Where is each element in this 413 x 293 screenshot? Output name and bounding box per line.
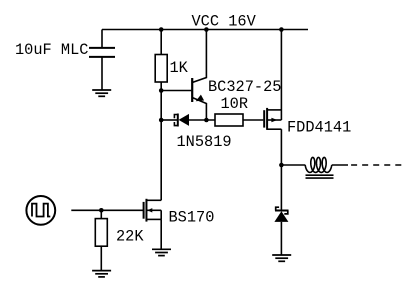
svg-text:VCC 16V: VCC 16V [192, 12, 257, 30]
svg-text:BS170: BS170 [169, 208, 215, 226]
svg-text:22K: 22K [116, 228, 144, 246]
svg-text:BC327-25: BC327-25 [208, 78, 281, 96]
svg-text:FDD4141: FDD4141 [287, 119, 351, 137]
svg-text:1K: 1K [170, 59, 189, 77]
svg-text:1N5819: 1N5819 [177, 133, 232, 151]
svg-text:10R: 10R [221, 95, 249, 113]
svg-text:10uF MLC: 10uF MLC [15, 41, 88, 59]
